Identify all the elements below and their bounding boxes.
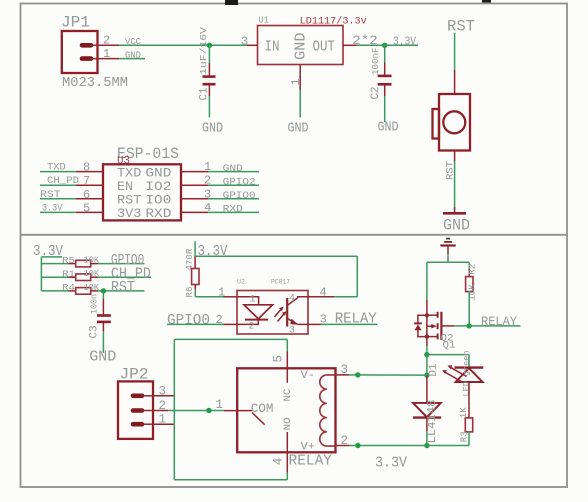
svg-text:4: 4	[320, 285, 327, 299]
svg-text:2: 2	[103, 34, 110, 48]
relay K1	[224, 368, 336, 453]
junction node RELAY	[467, 323, 472, 328]
ground GND (below button)	[443, 213, 470, 234]
wire Q1 source down	[426, 337, 428, 355]
pin 1 (U1 GND)	[289, 65, 303, 118]
cropped text remnant top 1	[225, 0, 238, 5]
svg-text:3: 3	[204, 187, 211, 201]
junction node relay V-	[424, 372, 429, 377]
pushbutton S1 (reset)	[433, 94, 471, 151]
svg-text:U2: U2	[237, 279, 245, 286]
wire JP2 pin3 to loop	[153, 395, 174, 397]
net label GND (ESP)	[223, 163, 243, 175]
LED D2 green	[442, 351, 483, 397]
ground GND (under C3)	[89, 349, 116, 366]
svg-text:C3: C3	[88, 326, 100, 339]
svg-text:1: 1	[218, 286, 225, 300]
svg-text:1: 1	[250, 294, 256, 305]
svg-text:4: 4	[272, 458, 286, 466]
connector JP1	[61, 14, 128, 92]
wire 3.3V pullup bus	[40, 257, 42, 291]
svg-text:LL4148: LL4148	[425, 400, 439, 444]
svg-text:GND: GND	[202, 121, 223, 137]
svg-text:4: 4	[204, 201, 211, 215]
svg-text:3: 3	[320, 312, 327, 326]
svg-text:NC: NC	[282, 389, 294, 402]
resistor R3 1K	[458, 407, 473, 445]
wire loop vertical	[173, 339, 175, 479]
svg-text:100nF: 100nF	[370, 47, 381, 75]
net label GPIO0 (opto input)	[167, 313, 237, 329]
svg-text:GND: GND	[89, 349, 116, 366]
transistor Q1 (MOSFET)	[414, 312, 455, 352]
wire loop bottom to relay pin4	[174, 479, 287, 481]
svg-text:GND: GND	[443, 217, 470, 235]
pin 3 wire (U2 output RELAY)	[308, 312, 377, 326]
svg-text:D1: D1	[428, 363, 440, 376]
svg-text:3: 3	[289, 326, 295, 337]
wire relay pin3 to V- node	[358, 374, 427, 376]
svg-text:RELAY: RELAY	[289, 452, 333, 469]
wire bottom net (relay V+ / D1 / R3)	[358, 445, 469, 447]
svg-text:1K: 1K	[458, 407, 469, 418]
svg-text:10K: 10K	[467, 284, 478, 301]
net label RST (pullup)	[111, 280, 135, 296]
connector JP2	[118, 365, 166, 439]
pin 2 (ESP GPIO2)	[181, 174, 259, 188]
net label RST (ESP)	[40, 189, 61, 201]
svg-text:Q1: Q1	[443, 340, 456, 351]
pin 3 (ESP GPIO0)	[181, 187, 259, 201]
svg-text:TXD: TXD	[47, 162, 66, 174]
svg-text:3: 3	[341, 363, 349, 377]
svg-text:3.3V: 3.3V	[42, 202, 63, 214]
wire loop top to relay pin5	[174, 338, 287, 340]
pin label RST (button lower pin)	[446, 151, 457, 181]
svg-text:R6: R6	[184, 286, 195, 297]
pin 7 (ESP EN)	[40, 174, 103, 188]
svg-text:RXD: RXD	[145, 206, 171, 221]
junction node RST/C3	[101, 288, 106, 293]
svg-text:8: 8	[83, 161, 90, 175]
svg-text:3.3V: 3.3V	[198, 244, 228, 260]
wire LED anode to R3	[468, 382, 470, 418]
net label TXD	[47, 162, 66, 174]
net label 3.3V (bottom)	[375, 454, 407, 471]
pin 3 (relay V-)	[336, 363, 358, 377]
net label GPIO0 (ESP)	[223, 190, 256, 202]
resistor R6 470R	[184, 248, 199, 297]
pin 4 (relay NO)	[272, 452, 288, 480]
wire U1 OUT to junction	[357, 44, 385, 46]
net label 3.3V (opto rail)	[195, 241, 228, 260]
pin 2 (relay V+)	[336, 434, 358, 448]
resistor R5 10K	[41, 256, 144, 267]
svg-text:GPIO2: GPIO2	[223, 176, 256, 188]
ground GND (under U1 pin1)	[288, 121, 309, 137]
svg-text:5: 5	[272, 355, 286, 363]
svg-text:GND: GND	[378, 120, 399, 136]
wire VCC JP1 to C1 junction	[119, 44, 209, 46]
svg-text:RST: RST	[111, 280, 135, 296]
wire junction down to relay/D1 node	[426, 355, 428, 376]
svg-text:3: 3	[241, 35, 248, 49]
svg-text:1: 1	[103, 47, 110, 61]
svg-text:3V3: 3V3	[117, 206, 141, 221]
net label RELAY (gate node)	[469, 314, 520, 329]
svg-text:10K: 10K	[84, 269, 100, 279]
regulator U1 LD1117/3.3v	[258, 16, 367, 65]
svg-text:7: 7	[83, 174, 90, 188]
net label CH_PD (pullup)	[111, 267, 151, 283]
resistor R1 10K	[41, 269, 151, 280]
wire C1 junction to U1 pin3	[209, 44, 247, 46]
net label CH_PD	[47, 175, 79, 187]
wire JP2 pin1 to loop	[153, 423, 174, 425]
svg-text:4: 4	[289, 293, 295, 304]
svg-text:GPIO0: GPIO0	[167, 313, 210, 329]
module U3 ESP-01S	[103, 145, 181, 221]
svg-text:GPIO0: GPIO0	[223, 190, 256, 202]
svg-text:C2: C2	[370, 87, 382, 100]
svg-text:10K: 10K	[84, 256, 100, 266]
svg-text:JP1: JP1	[61, 14, 90, 32]
svg-text:GND: GND	[223, 163, 243, 175]
designator D1	[428, 363, 440, 376]
svg-text:CH_PD: CH_PD	[47, 175, 79, 187]
net label 3.3V	[385, 34, 418, 48]
svg-text:R5: R5	[62, 256, 75, 266]
pin 1 (ESP GND)	[181, 160, 259, 174]
net label GPIO2	[223, 176, 256, 188]
svg-text:LED green: LED green	[461, 351, 471, 397]
capacitor C1	[198, 27, 216, 118]
capacitor C2	[370, 45, 392, 122]
wire supply rail to Q1 drain and R2	[427, 262, 469, 315]
net label RELAY (opto output)	[335, 311, 377, 327]
optocoupler U2 PC817	[237, 279, 308, 337]
pin 4 (ESP RXD)	[181, 201, 259, 215]
ground GND (under C1)	[202, 121, 223, 137]
svg-text:GND: GND	[288, 121, 309, 137]
pin 8 (ESP TXD)	[40, 161, 103, 175]
svg-text:GND: GND	[294, 33, 310, 61]
svg-text:10K: 10K	[84, 283, 100, 293]
resistor R2 10K	[466, 263, 478, 325]
svg-text:1: 1	[216, 398, 224, 412]
svg-text:2: 2	[249, 322, 255, 333]
svg-text:2: 2	[204, 174, 211, 188]
svg-text:6: 6	[83, 188, 90, 202]
wire 3.3V rail to U2 pin4	[195, 256, 357, 297]
svg-text:U1: U1	[258, 16, 269, 26]
capacitor C3 100n	[88, 291, 111, 353]
svg-text:1: 1	[289, 78, 303, 85]
wire Q1 gate to RELAY node	[441, 325, 469, 327]
junction node VCC/C1	[207, 43, 212, 48]
svg-text:OUT: OUT	[313, 40, 336, 56]
svg-text:RELAY: RELAY	[335, 311, 377, 327]
svg-text:3.3V: 3.3V	[375, 454, 407, 471]
diode D1 LL4148	[413, 375, 441, 445]
pin 5 (ESP 3V3)	[40, 201, 103, 215]
svg-text:RST: RST	[40, 189, 61, 201]
pin 6 (ESP RST)	[40, 188, 103, 202]
pin 1 (U2 anode)	[195, 286, 237, 300]
svg-text:C1: C1	[199, 87, 211, 100]
svg-text:R3: R3	[459, 431, 470, 442]
junction node relay pin2	[355, 443, 360, 448]
svg-text:100n: 100n	[88, 294, 99, 314]
svg-text:RELAY: RELAY	[481, 314, 517, 329]
net label 3.3V (pullups)	[33, 244, 63, 260]
net label RXD	[223, 204, 243, 216]
svg-text:RST: RST	[447, 18, 475, 36]
wire button to GND	[454, 161, 456, 212]
svg-text:PC817: PC817	[271, 279, 290, 286]
wire junction to LED cathode	[427, 355, 469, 368]
svg-text:R2: R2	[467, 263, 478, 274]
wire RST label to button	[454, 33, 456, 94]
net label RST (top)	[447, 18, 475, 36]
svg-text:1: 1	[204, 160, 211, 174]
svg-text:2: 2	[341, 434, 349, 448]
net label GND (JP1 pin1)	[119, 49, 145, 60]
pin 4 wire (U2 to 3.3V rail)	[308, 285, 357, 299]
pin 2*2 (U1 OUT)	[343, 33, 378, 48]
cropped text remnant top 2	[482, 0, 491, 3]
svg-text:1uF/16V: 1uF/16V	[198, 27, 209, 75]
resistor R4 10K	[41, 283, 144, 294]
svg-text:3.3V: 3.3V	[393, 34, 417, 48]
svg-text:R4: R4	[62, 283, 75, 293]
pin 3 (U1 IN)	[241, 35, 258, 49]
net label GPIO0 (pullup)	[111, 253, 144, 269]
junction node source/LED	[424, 352, 429, 357]
svg-text:RXD: RXD	[223, 204, 243, 216]
net label 3.3V (ESP)	[42, 202, 63, 214]
pin 5 (relay NC)	[272, 339, 288, 368]
svg-text:5: 5	[83, 201, 90, 215]
section divider	[21, 234, 568, 236]
supply symbol (3.3V rail above Q1)	[440, 239, 455, 263]
svg-text:R1: R1	[62, 270, 75, 280]
ground GND (under C2)	[378, 120, 399, 136]
net label VCC	[125, 36, 141, 47]
svg-text:IN: IN	[265, 40, 280, 56]
designator RELAY (relay name)	[289, 452, 333, 469]
junction node JP2 pin2	[206, 408, 211, 413]
svg-text:M023.5MM: M023.5MM	[62, 75, 128, 91]
svg-text:V-: V-	[301, 370, 315, 382]
svg-text:470R: 470R	[184, 248, 195, 270]
junction node relay V+	[424, 443, 429, 448]
wire JP2 pin2 to COM	[153, 398, 224, 412]
svg-text:NO: NO	[282, 417, 294, 430]
junction node relay pin3	[355, 372, 360, 377]
junction node 3.3V/C2	[382, 43, 387, 48]
